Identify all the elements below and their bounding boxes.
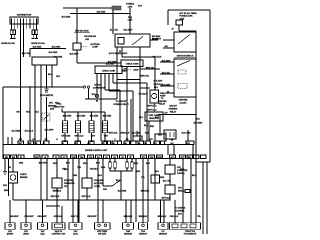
injector 2 (76, 121, 81, 133)
svg-text:FUEL: FUEL (160, 93, 166, 95)
engine control module (3, 145, 193, 159)
svg-text:GRN-WHT: GRN-WHT (87, 216, 97, 218)
dash to altitude (81, 46, 87, 48)
right frame left stub (167, 10, 169, 25)
svg-text:(AS): (AS) (41, 233, 45, 236)
svg-text:GRN: GRN (19, 163, 24, 165)
svg-text:BLU-BLK: BLU-BLK (139, 94, 148, 96)
svg-text:G-: G- (62, 143, 64, 145)
fan wire y79 (117, 74, 140, 80)
svg-text:RELAY: RELAY (159, 103, 166, 106)
svg-text:#30: #30 (111, 143, 114, 145)
injector feed bend (62, 99, 117, 112)
spark plug 4 (35, 30, 38, 39)
check drop x97 (96, 74, 98, 95)
svg-text:BLK: BLK (139, 117, 144, 119)
bottom box 3 (38, 223, 48, 229)
svg-text:OPENING RELAY: OPENING RELAY (113, 103, 129, 106)
svg-text:ALTITUDE: ALTITUDE (94, 182, 104, 185)
svg-text:GRN-BLK: GRN-BLK (121, 133, 130, 135)
switch2 stub am (160, 61, 174, 63)
svg-text:(A/C): (A/C) (73, 233, 78, 236)
svg-text:TACHOMETER: TACHOMETER (40, 94, 54, 97)
long wire x79 (78, 159, 80, 223)
ground bus (13, 199, 170, 201)
svg-text:PRESSURE: PRESSURE (64, 183, 75, 185)
wire x148 (147, 159, 149, 201)
svg-text:SENSOR: SENSOR (139, 234, 148, 236)
wire egr down (76, 50, 78, 63)
tach connector (44, 89, 48, 91)
svg-text:BRN-BLK: BRN-BLK (53, 191, 62, 193)
svg-text:BLK-WHT: BLK-WHT (162, 60, 172, 62)
right pin box a (194, 155, 200, 159)
relay chain wire (169, 159, 171, 166)
svg-text:BLK-WHT: BLK-WHT (45, 130, 55, 132)
frame drop 203 (202, 162, 204, 234)
svg-text:BRN-YEL: BRN-YEL (146, 67, 155, 69)
svg-text:(4 CYLINDER) CALIF: (4 CYLINDER) CALIF (109, 52, 128, 55)
svg-text:ENGINE: ENGINE (20, 177, 28, 179)
ignition switch box2 (174, 59, 196, 97)
bottom box 10 (170, 223, 201, 229)
right frame top (168, 9, 210, 11)
wire relay to pump column (122, 56, 155, 58)
blk-orn wire (187, 130, 189, 141)
svg-text:DIAG: DIAG (134, 68, 139, 71)
box4 drop2 (61, 206, 63, 223)
svg-text:E02: E02 (12, 157, 15, 159)
long wire x98 (97, 159, 99, 201)
svg-text:BLK: BLK (196, 119, 201, 121)
check box out (126, 67, 128, 142)
svg-text:BLK-RED: BLK-RED (118, 191, 127, 193)
svg-text:BLK: BLK (98, 175, 103, 177)
evap component inner (166, 132, 174, 137)
bus drop 95 (98, 200, 103, 223)
WIRES-TOPMID (54, 4, 166, 142)
igniter (32, 57, 57, 65)
svg-text:STARTER: STARTER (179, 99, 188, 102)
inline component x155 (151, 175, 160, 183)
cluster merge dot (120, 180, 121, 181)
wire fuse to switch (179, 30, 196, 32)
svg-text:OPENING: OPENING (169, 109, 178, 111)
check terminal right (124, 68, 126, 70)
check engine lamp box (9, 172, 18, 183)
svg-text:#40: #40 (123, 142, 126, 145)
svg-text:BLK-WHT: BLK-WHT (70, 54, 80, 56)
junction x140 (139, 56, 140, 57)
svg-text:INJECTORS: INJECTORS (54, 107, 66, 109)
resistor 4 (131, 162, 134, 168)
distributor (10, 17, 38, 24)
bus drop 28 (25, 200, 27, 223)
switch2 stub acc (165, 92, 174, 94)
brn-yel wire (140, 68, 160, 70)
svg-text:W: W (145, 143, 147, 145)
svg-text:W: W (9, 167, 11, 169)
junction output2 (40, 86, 41, 87)
wire relay feed (112, 10, 114, 34)
svg-text:GRN-BLK: GRN-BLK (54, 216, 63, 218)
svg-text:WHT-BLU: WHT-BLU (75, 136, 84, 138)
svg-text:CONTROL VSV: CONTROL VSV (52, 234, 66, 236)
junction igniter-bus (51, 86, 52, 87)
svg-text:FUSIBLE: FUSIBLE (126, 4, 135, 6)
svg-text:BLK-RED: BLK-RED (77, 116, 86, 118)
fuse symbol (176, 20, 183, 25)
bus drop 172 (174, 200, 176, 223)
cruise box (185, 190, 190, 193)
box3 symbol (41, 224, 44, 227)
svg-text:#20: #20 (101, 143, 104, 145)
svg-text:WHT-BLK: WHT-BLK (51, 196, 60, 198)
igniter output 1 (34, 65, 36, 141)
relay out injector feed (116, 47, 118, 99)
svg-text:THROTTLE: THROTTLE (185, 231, 196, 233)
svg-text:W: W (139, 139, 141, 141)
bus drop 136 (135, 200, 137, 222)
svg-text:W-R: W-R (138, 6, 142, 8)
wire x141 (142, 159, 144, 223)
wire top y8 (63, 8, 112, 14)
wire ne (29, 87, 31, 141)
ground wire left (4, 159, 6, 172)
svg-text:E1: E1 (20, 157, 22, 159)
svg-text:CHECK: CHECK (20, 174, 27, 176)
switch1 left stub2 (163, 47, 174, 49)
relay chain box2 (165, 185, 175, 194)
svg-text:STJ: STJ (142, 157, 145, 159)
svg-text:VTA: VTA (89, 156, 93, 159)
svg-text:TO CRUISE: TO CRUISE (175, 208, 186, 210)
left frame wire (2, 87, 4, 145)
svg-text:W: W (167, 91, 169, 93)
igniter output 2 (40, 65, 42, 141)
wire coil (23, 19, 25, 58)
box6 symbols (98, 224, 101, 227)
wire x155 (154, 159, 156, 201)
WIRES-TOPLEFT (1, 15, 96, 145)
bottom box 8 (139, 223, 148, 229)
svg-text:BRN: BRN (4, 190, 9, 192)
svg-text:AM: AM (165, 45, 168, 48)
spark plug 3 (32, 30, 35, 39)
svg-text:(EGR): (EGR) (23, 234, 29, 236)
svg-text:RELAY: RELAY (170, 110, 177, 113)
resistor 1 (109, 162, 112, 168)
svg-text:ECU: ECU (178, 214, 183, 216)
svg-text:CHECK CONN: CHECK CONN (102, 71, 115, 73)
right drops (183, 159, 191, 223)
svg-text:BLK-WHT: BLK-WHT (152, 39, 162, 41)
right long wire x196 (195, 31, 197, 199)
svg-text:GRN-WHT: GRN-WHT (9, 216, 19, 218)
solenoid box B (155, 134, 166, 141)
svg-text:BLK-WHT: BLK-WHT (154, 81, 164, 83)
bottom box 5 (69, 223, 82, 229)
bus drop 73 (72, 200, 74, 223)
vsv2 out (86, 188, 88, 200)
bottom box 6 (95, 223, 111, 229)
long wire x68 (67, 159, 69, 201)
vsv box 2 (82, 178, 92, 188)
dot pump1 (154, 75, 155, 76)
switch1 left stub (163, 39, 174, 41)
svg-text:E2: E2 (121, 157, 123, 159)
svg-text:GRN: GRN (160, 177, 165, 179)
cluster dot (120, 189, 121, 190)
BOTTOM (3, 159, 202, 236)
switch2 stub st (160, 73, 174, 75)
svg-text:BLK: BLK (144, 125, 149, 127)
svg-text:SPD: SPD (186, 143, 191, 145)
evap pin wires (168, 145, 174, 156)
svg-text:CIRCUIT: CIRCUIT (169, 106, 178, 108)
box3 drop (42, 200, 44, 223)
ecm bottom pin boxes (4, 155, 193, 159)
pump out (153, 103, 155, 112)
svg-text:GRN-YEL: GRN-YEL (71, 216, 80, 218)
svg-text:SPARK PLUGS: SPARK PLUGS (31, 42, 45, 45)
svg-text:UP): UP) (64, 186, 68, 188)
at wire horizontal (158, 114, 196, 116)
bus drop 57 (56, 200, 58, 223)
wire x136 (135, 159, 137, 201)
relay contact (132, 37, 143, 46)
ground symbol left (3, 172, 7, 175)
svg-text:GRN: GRN (53, 163, 58, 165)
fan wire y90 (105, 74, 120, 142)
wire x47 (46, 159, 48, 201)
right pin box b (201, 155, 207, 159)
wire egr drop (76, 14, 78, 44)
svg-text:BLU-RED: BLU-RED (12, 131, 21, 133)
aux segment (46, 205, 60, 207)
svg-text:WHT-BLK: WHT-BLK (82, 196, 91, 198)
ignition switch box1 (174, 32, 196, 52)
check terminal dash (127, 69, 132, 71)
vsv fuel circuit left (56, 159, 58, 179)
box7 symbol (127, 224, 130, 227)
top fuse tick (129, 8, 131, 14)
svg-text:BLU: BLU (154, 87, 159, 89)
left stub pins (8, 137, 12, 145)
svg-text:BLK-RED: BLK-RED (63, 116, 72, 118)
switch2 inner dash2 (178, 84, 187, 89)
bottom box 4 (52, 223, 65, 229)
box10 inners (172, 224, 178, 228)
svg-text:STA: STA (74, 142, 78, 145)
fan wire y83 (113, 74, 147, 142)
svg-text:THA: THA (141, 230, 146, 233)
svg-text:THA: THA (80, 156, 85, 159)
junction feed (100, 98, 101, 99)
MIDDLE (8, 99, 174, 145)
vsv box 1 (52, 178, 62, 188)
frame bottom link (196, 161, 210, 163)
feed drop from pair (88, 88, 90, 99)
svg-text:PNK-BLU: PNK-BLU (170, 216, 179, 218)
svg-text:CONNECTOR: CONNECTOR (93, 88, 106, 90)
bus drop 160 (161, 200, 165, 223)
box2 symbol (25, 224, 28, 227)
svg-text:W-B: W-B (56, 76, 60, 78)
box9 symbol (162, 224, 165, 227)
svg-text:GRN-WHT: GRN-WHT (37, 216, 47, 218)
frame drop 207 (206, 162, 208, 234)
egr underline (74, 31, 90, 33)
spark plug 2 (13, 30, 16, 39)
svg-text:BLK-YEL: BLK-YEL (162, 72, 171, 74)
check box mid (121, 60, 143, 67)
wire fuse to relay (129, 14, 131, 35)
relay out W (121, 47, 123, 57)
relay chain wire2 (169, 174, 171, 185)
pump supply column (154, 57, 156, 90)
svg-text:PNK: PNK (103, 189, 108, 191)
efi main relay (115, 34, 150, 47)
wire x140 full (139, 47, 141, 141)
check terminal pair b (87, 86, 89, 88)
bottom box 7 (123, 223, 134, 229)
relay chain wire3 (169, 194, 171, 200)
injector 1 (63, 121, 68, 133)
svg-text:BLK-RED: BLK-RED (162, 84, 171, 86)
svg-text:TAN-BLK: TAN-BLK (90, 168, 99, 171)
relay coil (118, 38, 124, 45)
svg-text:BLU-BLK: BLU-BLK (25, 131, 34, 133)
evap component (164, 130, 176, 139)
box5 drop2 (77, 200, 79, 223)
wire top y13.5 (70, 13, 130, 15)
box4 inner (55, 224, 63, 228)
svg-text:BRN-BLK: BRN-BLK (158, 216, 167, 218)
svg-text:BLK-YEL: BLK-YEL (22, 53, 31, 55)
long wire x73 (72, 159, 74, 201)
svg-text:POS SENSOR: POS SENSOR (184, 234, 197, 236)
svg-text:BLK-RED: BLK-RED (49, 52, 58, 54)
check engine wire (12, 159, 14, 173)
vsv fuel circuit right (86, 159, 88, 179)
evap wires (166, 139, 172, 141)
ground marker (95, 94, 98, 97)
svg-text:BLK-ORN: BLK-ORN (182, 133, 191, 135)
svg-text:TO CIRCUIT: TO CIRCUIT (116, 101, 128, 103)
ECM (3, 141, 194, 159)
vsv1 out (56, 188, 58, 200)
wire IGT to ECM (20, 19, 22, 142)
svg-text:SW (A/T): SW (A/T) (98, 233, 106, 236)
solenoid box A stub (136, 131, 138, 136)
bottom box 2 (21, 223, 31, 229)
svg-text:BLK: BLK (192, 175, 197, 177)
svg-text:BRN-BLK: BRN-BLK (124, 216, 133, 218)
switch1 contact (178, 35, 190, 45)
wire diag to check box (77, 62, 121, 64)
svg-text:(EVAP): (EVAP) (7, 233, 14, 236)
svg-text:VACUUM SW: VACUUM SW (84, 35, 96, 38)
distributor leads (12, 19, 37, 31)
svg-text:BLK-RED: BLK-RED (103, 116, 112, 118)
mid dot1 (56, 189, 57, 190)
svg-text:COMP: COMP (92, 47, 98, 49)
box6 right drop (102, 200, 104, 223)
dot pump2 (154, 104, 155, 105)
speed sensor box (42, 113, 50, 121)
svg-text:STA: STA (150, 156, 154, 159)
bottom box 9 (158, 223, 168, 229)
right frame drops (195, 199, 197, 223)
svg-text:CHECK CONN: CHECK CONN (126, 63, 139, 65)
box5 symbol (74, 224, 77, 227)
injector drop 4 (104, 112, 106, 141)
WIRES-TOPRIGHT (133, 10, 210, 234)
svg-text:W-R: W-R (155, 117, 159, 119)
svg-text:BLK-WHT: BLK-WHT (124, 30, 134, 32)
svg-text:W-B: W-B (26, 112, 30, 114)
svg-text:DISTRIBUTOR: DISTRIBUTOR (17, 15, 32, 17)
lamp to bus (12, 183, 14, 200)
speed sensor contact (44, 115, 50, 120)
mid dot2 (147, 189, 148, 190)
switch2 stub ig (160, 85, 174, 87)
wire BLK-RED horizontal (30, 49, 66, 58)
resistor 3 (126, 162, 129, 168)
check drop x101 (100, 74, 102, 142)
mid column wire 131 (130, 99, 132, 141)
svg-text:COMP): COMP) (94, 186, 101, 188)
injector drop 3 (91, 112, 93, 141)
svg-text:WHT-BLK: WHT-BLK (109, 133, 118, 135)
svg-text:GRN-WHT: GRN-WHT (24, 216, 34, 218)
svg-text:BLU-YEL: BLU-YEL (132, 133, 141, 135)
long wire x103 (103, 159, 120, 187)
svg-text:THW: THW (126, 231, 131, 233)
svg-text:NSW: NSW (157, 157, 162, 159)
svg-text:CHECK: CHECK (94, 85, 101, 87)
solenoid box B stub (159, 115, 161, 135)
svg-text:STARTER: STARTER (158, 100, 167, 103)
svg-text:G1: G1 (43, 143, 46, 145)
injector drop 1 (64, 112, 66, 141)
svg-text:BLK-YEL: BLK-YEL (110, 30, 119, 32)
bus drop 121 (126, 200, 131, 223)
injector 3 (89, 121, 94, 133)
svg-text:BRN: BRN (136, 171, 141, 173)
svg-text:THW: THW (71, 157, 76, 159)
svg-text:GRN: GRN (145, 133, 150, 135)
pump resistor box (145, 112, 163, 121)
svg-text:BLU-RED: BLU-RED (194, 123, 203, 125)
check terminal pair a (83, 86, 85, 88)
right frame right edge (209, 10, 211, 162)
junction ne (29, 86, 30, 87)
long wire bus y87 (3, 86, 83, 88)
svg-text:ENGINE CONTROL UNIT: ENGINE CONTROL UNIT (85, 150, 108, 152)
svg-text:BLK-RED: BLK-RED (97, 12, 106, 14)
svg-text:BLK-RED: BLK-RED (33, 47, 42, 49)
fuse lead (178, 25, 180, 31)
dot 103 bus (102, 199, 103, 200)
svg-text:WHT-BLU: WHT-BLU (148, 106, 157, 108)
svg-text:BLK-RED: BLK-RED (62, 17, 71, 19)
svg-text:TAN: TAN (62, 168, 66, 171)
solenoid box A (133, 136, 142, 141)
igniter output 4 (51, 65, 53, 87)
switch2 contact (177, 61, 190, 67)
